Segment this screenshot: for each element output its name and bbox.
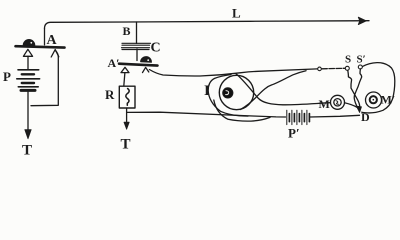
resistor R box xyxy=(119,86,135,108)
svg-text:D: D xyxy=(361,110,370,124)
svg-text:S: S xyxy=(345,53,351,65)
svg-text:C: C xyxy=(151,41,161,56)
big loop from S' around M' to D xyxy=(362,63,395,113)
key A' contact arrow xyxy=(143,67,149,72)
wire L main line xyxy=(45,21,370,29)
wire battery P' to D xyxy=(310,115,360,117)
magnet M' center dot xyxy=(373,99,375,101)
induction coil hairpin cap and bottom xyxy=(208,75,248,117)
svg-text:A′: A′ xyxy=(108,56,120,70)
magnet M' outer circle xyxy=(366,92,382,108)
svg-text:R: R xyxy=(105,87,115,102)
battery P plates xyxy=(17,70,40,91)
key A knob xyxy=(23,40,35,46)
wire long bottom lead to battery P' xyxy=(127,112,285,117)
knob A highlight xyxy=(30,42,32,44)
wire battery to earth T xyxy=(27,92,29,131)
wire M to D xyxy=(345,103,358,108)
arrowhead of line L xyxy=(358,17,366,24)
contact S circle xyxy=(345,66,349,70)
junction D wedge xyxy=(357,106,362,112)
contact S' circle xyxy=(358,65,362,69)
wire condenser to key A' knob xyxy=(136,49,138,61)
knob A' highlight xyxy=(147,59,149,61)
wire A' pivot down to resistance box R xyxy=(124,73,125,86)
svg-text:P′: P′ xyxy=(288,126,300,141)
wire coil circle bottom up-right crossing xyxy=(241,71,307,110)
magnet M inner mark xyxy=(336,101,339,105)
svg-text:L: L xyxy=(232,6,241,21)
wire coil crossing down to magnet M xyxy=(236,74,330,105)
key A' pivot triangle xyxy=(121,67,129,72)
battery P' cells xyxy=(287,110,310,124)
wire pivot to battery P xyxy=(27,56,29,69)
magnet M inner circle xyxy=(334,99,341,106)
capacitor C top plate xyxy=(122,42,151,44)
key A lever bar xyxy=(16,46,65,47)
earth arrow middle xyxy=(124,122,129,129)
svg-text:T: T xyxy=(121,137,131,153)
key A contact arrow xyxy=(51,50,59,58)
wire key contact down and left (bracket) xyxy=(31,51,58,106)
svg-text:M: M xyxy=(319,97,330,111)
induction coil I core xyxy=(223,88,233,98)
svg-text:B: B xyxy=(123,24,131,38)
svg-text:A: A xyxy=(47,33,58,48)
induction coil I ring xyxy=(219,75,253,109)
svg-text:M′: M′ xyxy=(381,93,396,107)
magnet M outer circle xyxy=(331,95,345,109)
armature wire S to D xyxy=(348,71,360,110)
capacitor C bottom plate xyxy=(122,47,150,49)
armature wire S' to D xyxy=(354,69,362,109)
svg-text:I: I xyxy=(204,83,210,99)
contact small circle on upper wire xyxy=(318,67,322,71)
svg-text:T: T xyxy=(22,143,32,159)
induction coil outer tail loop xyxy=(214,100,270,121)
core highlight xyxy=(226,91,229,95)
svg-text:S′: S′ xyxy=(357,54,366,66)
key A' lever bar xyxy=(119,64,158,66)
wire B from line L down to condenser xyxy=(136,22,138,43)
wire R box to earth xyxy=(126,108,128,122)
key A' knob xyxy=(141,57,152,63)
key A pivot triangle xyxy=(23,49,32,56)
wire circle to contact S xyxy=(322,67,345,70)
wire A' contact to coil (upper wire) xyxy=(149,69,317,76)
resistor R squiggle inside xyxy=(126,89,129,106)
wire from L corner down to key A xyxy=(44,29,46,45)
svg-text:P: P xyxy=(3,69,11,84)
earth arrow left xyxy=(25,130,31,139)
magnet M' inner ring xyxy=(370,96,377,103)
